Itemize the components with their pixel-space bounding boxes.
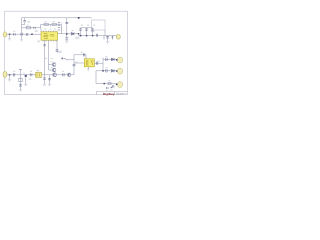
svg-text:Schem: Schem <box>116 93 123 96</box>
svg-text:DigiKey: DigiKey <box>103 92 115 96</box>
